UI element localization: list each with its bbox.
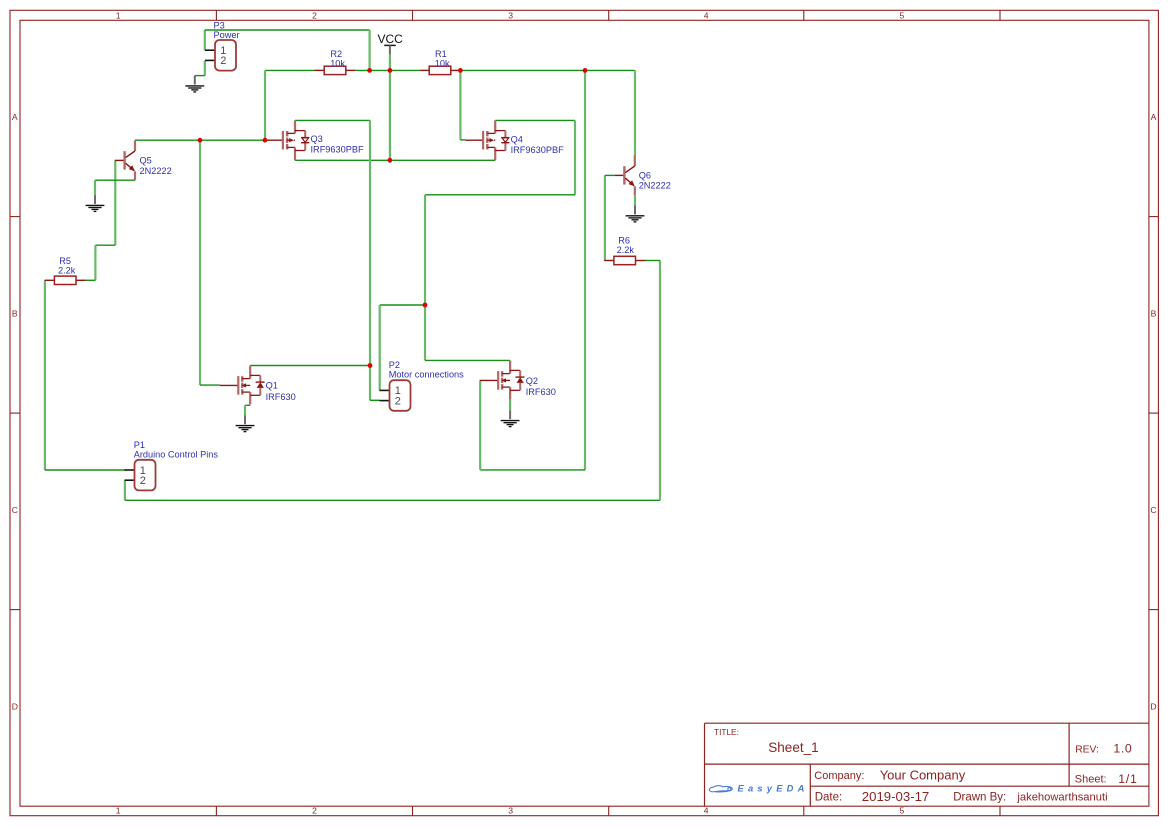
svg-text:3: 3 bbox=[508, 10, 513, 20]
title block texts bbox=[714, 727, 1138, 804]
svg-text:5: 5 bbox=[900, 806, 905, 816]
wire P3 pin1 to VCC bus bbox=[205, 30, 370, 70]
VCC power symbol bbox=[378, 32, 404, 54]
svg-text:Date:: Date: bbox=[815, 792, 843, 804]
wire VCC bus y=70.4 bbox=[265, 70, 635, 155]
label R1 bbox=[435, 49, 447, 59]
svg-text:jakehowarthsanuti: jakehowarthsanuti bbox=[1016, 791, 1107, 803]
svg-text:P1: P1 bbox=[134, 440, 145, 450]
label P2 bbox=[389, 360, 400, 370]
svg-text:Arduino Control Pins: Arduino Control Pins bbox=[134, 449, 219, 459]
transistor Q2 NMOS bbox=[480, 361, 525, 400]
junction VCC source bus bbox=[388, 158, 393, 163]
wire Q5 collector to Q3 gate node bbox=[135, 139, 265, 141]
svg-text:2: 2 bbox=[140, 475, 146, 487]
P2 pin 1 number bbox=[395, 385, 401, 397]
label Q2 bbox=[526, 376, 538, 386]
svg-text:D: D bbox=[1150, 701, 1156, 711]
svg-text:2: 2 bbox=[220, 55, 226, 67]
svg-text:IRF9630PBF: IRF9630PBF bbox=[511, 145, 564, 155]
wire Q5 base to R5 bbox=[86, 161, 116, 281]
P3 pin 2 number bbox=[220, 55, 226, 67]
wire motor node to P2 pin1 bbox=[380, 305, 425, 390]
frame row label D bbox=[12, 701, 1157, 711]
frame column label 3 bbox=[508, 10, 513, 815]
wire Q6 emitter to ground bbox=[634, 195, 636, 205]
P1 pin 2 number bbox=[140, 475, 146, 487]
transistor Q6 NPN bbox=[615, 155, 635, 195]
transistor Q5 NPN bbox=[115, 140, 135, 180]
wire P3 pin2 to ground bbox=[195, 61, 205, 76]
frame row label B bbox=[12, 308, 1157, 318]
svg-text:C: C bbox=[12, 505, 18, 515]
ground Q5 emitter bbox=[86, 195, 105, 211]
transistor Q3 PMOS bbox=[265, 120, 309, 160]
resistor R1 bbox=[420, 66, 461, 74]
label Q4 bbox=[511, 135, 523, 145]
value 2.2k (R6) bbox=[617, 245, 635, 255]
frame column label 4 bbox=[704, 10, 709, 815]
wire Q2 source to ground bbox=[509, 399, 511, 410]
frame column label 2 bbox=[312, 10, 317, 815]
svg-text:Q4: Q4 bbox=[511, 135, 523, 145]
value Power bbox=[214, 30, 240, 40]
label Q3 bbox=[311, 134, 323, 144]
value IRF9630PBF (Q3) bbox=[311, 144, 364, 154]
connector P1 bbox=[125, 460, 156, 491]
frame row label A bbox=[12, 112, 1157, 122]
P1 pin 1 number bbox=[140, 465, 146, 477]
svg-text:IRF630: IRF630 bbox=[266, 392, 296, 402]
svg-text:Sheet:: Sheet: bbox=[1075, 774, 1107, 786]
value IRF630 (Q2) bbox=[526, 387, 556, 397]
svg-text:C: C bbox=[1150, 505, 1156, 515]
junction gate node A bbox=[198, 138, 203, 143]
svg-text:1.0: 1.0 bbox=[1113, 741, 1132, 755]
junction Q3 gate node bbox=[263, 138, 268, 143]
frame row tick y=413.1 bbox=[10, 412, 1158, 414]
svg-text:Power: Power bbox=[214, 30, 240, 40]
wire R1 left node down to Q4 gate bbox=[460, 70, 465, 139]
svg-text:1/1: 1/1 bbox=[1118, 772, 1138, 786]
svg-text:Motor connections: Motor connections bbox=[389, 370, 464, 380]
frame column tick x=412.5 bbox=[412, 10, 414, 815]
junction motor node bbox=[423, 303, 428, 308]
svg-text:D: D bbox=[12, 701, 18, 711]
wire Q3 drain to Q1 drain to P2 pin2 bbox=[295, 120, 380, 400]
svg-text:4: 4 bbox=[704, 806, 709, 816]
svg-text:2.2k: 2.2k bbox=[617, 245, 635, 255]
frame column tick x=216.4 bbox=[215, 10, 217, 815]
svg-text:10k: 10k bbox=[435, 58, 450, 68]
svg-text:2: 2 bbox=[395, 395, 401, 407]
value 10k (R2) bbox=[330, 58, 345, 68]
wire VCC stem down to source bus bbox=[389, 55, 391, 161]
wire R6 left up to Q6 base bbox=[605, 175, 615, 260]
svg-text:3: 3 bbox=[508, 806, 513, 816]
svg-text:R6: R6 bbox=[618, 236, 630, 246]
label P3 bbox=[214, 20, 225, 30]
wire Q1 source to ground bbox=[245, 405, 250, 415]
svg-text:P3: P3 bbox=[214, 20, 225, 30]
value Motor connections bbox=[389, 370, 464, 380]
wire R5 left to P1 pin1 bbox=[45, 280, 125, 470]
ground near P3 bbox=[185, 76, 204, 92]
junction VCC stem/bus bbox=[388, 68, 393, 73]
value Arduino Control Pins bbox=[134, 449, 219, 459]
ground Q1 source bbox=[236, 415, 255, 431]
wire Q4 drain to Q2 drain bbox=[425, 120, 575, 360]
svg-text:Your Company: Your Company bbox=[880, 767, 966, 782]
svg-text:Drawn By:: Drawn By: bbox=[953, 792, 1006, 804]
connector P2 bbox=[380, 380, 411, 411]
transistor Q4 PMOS bbox=[465, 120, 509, 160]
svg-text:1: 1 bbox=[116, 10, 121, 20]
svg-text:1: 1 bbox=[116, 806, 121, 816]
svg-text:5: 5 bbox=[900, 10, 905, 20]
P2 pin 2 number bbox=[395, 395, 401, 407]
label R6 bbox=[618, 236, 630, 246]
wire Q1 drain stub bbox=[250, 365, 370, 367]
wire Q5 emitter to ground bbox=[95, 180, 135, 195]
value 2N2222 (Q5) bbox=[140, 166, 172, 176]
svg-text:Sheet_1: Sheet_1 bbox=[768, 740, 818, 755]
wire source bus y=160.3 bbox=[295, 159, 495, 161]
frame row tick y=609.6 bbox=[10, 609, 1158, 611]
svg-text:B: B bbox=[12, 308, 18, 318]
ground Q2 source bbox=[501, 410, 520, 426]
resistor R5 bbox=[45, 276, 86, 284]
P3 pin 1 number bbox=[220, 45, 226, 57]
wire gate node down to Q1 gate bbox=[200, 140, 220, 385]
value IRF9630PBF (Q4) bbox=[511, 145, 564, 155]
svg-text:A: A bbox=[1151, 112, 1157, 122]
label Q5 bbox=[140, 156, 152, 166]
label R2 bbox=[330, 49, 342, 59]
connector P3 bbox=[205, 40, 236, 71]
label P1 bbox=[134, 440, 145, 450]
junction P3/VCC bus bbox=[367, 68, 372, 73]
svg-text:IRF630: IRF630 bbox=[526, 387, 556, 397]
value IRF630 (Q1) bbox=[266, 392, 296, 402]
svg-text:Company:: Company: bbox=[814, 770, 864, 782]
ground Q6 emitter bbox=[626, 206, 645, 222]
svg-text:B: B bbox=[1151, 308, 1157, 318]
svg-text:Q6: Q6 bbox=[639, 171, 651, 181]
frame row label C bbox=[12, 505, 1157, 515]
svg-text:2: 2 bbox=[312, 10, 317, 20]
svg-text:Q2: Q2 bbox=[526, 376, 538, 386]
frame column tick x=608.7 bbox=[608, 10, 610, 815]
svg-text:2.2k: 2.2k bbox=[58, 266, 76, 276]
value 10k (R1) bbox=[435, 58, 450, 68]
frame column tick x=803.8 bbox=[803, 10, 805, 815]
svg-text:2019-03-17: 2019-03-17 bbox=[862, 789, 929, 804]
svg-text:VCC: VCC bbox=[378, 32, 404, 46]
svg-text:R5: R5 bbox=[59, 256, 71, 266]
EasyEDA logo bbox=[709, 783, 808, 794]
label Q6 bbox=[639, 171, 651, 181]
resistor R6 bbox=[604, 256, 645, 264]
junction R1 right branch bbox=[583, 68, 588, 73]
svg-text:Q5: Q5 bbox=[140, 156, 152, 166]
frame column tick x=1000.0 bbox=[999, 10, 1001, 815]
wire R2 left branch down to Q3 gate bbox=[264, 70, 266, 140]
svg-text:EasyEDA: EasyEDA bbox=[738, 783, 809, 794]
frame row tick y=216.6 bbox=[10, 216, 1158, 218]
wire R1 right node to Q2 gate bbox=[480, 70, 585, 470]
wire P1 pin2 to R6 right bbox=[125, 261, 660, 501]
junction Q1 drain node bbox=[368, 363, 373, 368]
svg-text:REV:: REV: bbox=[1075, 744, 1099, 755]
svg-text:2: 2 bbox=[312, 806, 317, 816]
title block bbox=[705, 723, 1149, 806]
svg-text:2N2222: 2N2222 bbox=[639, 180, 671, 190]
svg-text:Q3: Q3 bbox=[311, 134, 323, 144]
svg-text:IRF9630PBF: IRF9630PBF bbox=[311, 144, 364, 154]
label R5 bbox=[59, 256, 71, 266]
label Q1 bbox=[266, 380, 278, 390]
frame column label 1 bbox=[116, 10, 121, 815]
svg-text:4: 4 bbox=[704, 10, 709, 20]
svg-text:A: A bbox=[12, 112, 18, 122]
svg-text:TITLE:: TITLE: bbox=[714, 727, 739, 737]
svg-text:Q1: Q1 bbox=[266, 380, 278, 390]
value 2.2k (R5) bbox=[58, 266, 76, 276]
frame column label 5 bbox=[900, 10, 905, 815]
svg-text:2N2222: 2N2222 bbox=[140, 166, 172, 176]
junction R1 left bbox=[458, 68, 463, 73]
svg-text:10k: 10k bbox=[330, 58, 345, 68]
resistor R2 bbox=[315, 66, 356, 74]
transistor Q1 NMOS bbox=[220, 366, 265, 405]
value 2N2222 (Q6) bbox=[639, 180, 671, 190]
